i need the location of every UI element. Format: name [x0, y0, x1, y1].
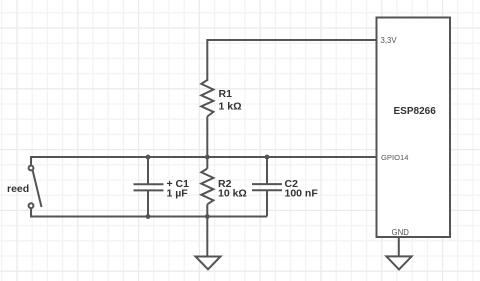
wire GPIO14 net: reed switch top to ESP8266 GPIO14 pin — [31, 157, 376, 166]
ground symbol (ESP8266 GND) — [386, 256, 411, 269]
svg-text:ESP8266: ESP8266 — [394, 106, 437, 117]
svg-text:GPIO14: GPIO14 — [381, 153, 408, 162]
ground symbol (bottom net) — [196, 257, 221, 270]
svg-text:R1: R1 — [219, 88, 233, 100]
reed switch — [29, 166, 42, 209]
svg-text:10 kΩ: 10 kΩ — [218, 188, 247, 200]
junction node: R2 bottom on bottom net — [205, 214, 210, 219]
wire: ESP8266 GND pin to ground — [398, 237, 400, 256]
wire 3.3V rail: R1 top to ESP8266 3,3V pin — [207, 40, 376, 81]
svg-text:100 nF: 100 nF — [285, 188, 319, 200]
wire: bottom net to ground — [206, 217, 208, 257]
svg-text:1 kΩ: 1 kΩ — [219, 101, 242, 113]
junction node: C1 top on GPIO14 net — [146, 155, 151, 160]
resistor R1 — [201, 80, 213, 117]
wire bottom net: reed switch bottom to C2 — [31, 208, 267, 216]
junction node: R2 top on GPIO14 net — [205, 155, 210, 160]
svg-text:3,3V: 3,3V — [381, 36, 398, 45]
junction node: C2 top on GPIO14 net — [265, 155, 270, 160]
svg-text:reed: reed — [7, 183, 29, 195]
wire: R1 bottom to GPIO14 node — [206, 117, 208, 158]
resistor R2 — [201, 157, 213, 217]
svg-text:1 µF: 1 µF — [167, 188, 189, 200]
capacitor C2 — [252, 157, 282, 217]
capacitor C1 (polarized) — [134, 157, 164, 217]
junction node: C1 bottom on bottom net — [146, 214, 151, 219]
ESP8266 module U1 — [377, 18, 451, 238]
svg-text:GND: GND — [392, 228, 410, 237]
